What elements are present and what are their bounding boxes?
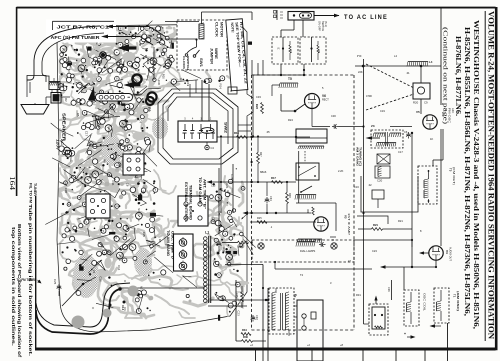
wire 253 (252, 75, 254, 137)
wire h1 r16 (217, 136, 310, 138)
sw2 oval (201, 128, 214, 134)
svg-text:.05: .05 (266, 130, 270, 134)
pcb black wedge (88, 86, 95, 101)
v4 tube (429, 246, 443, 260)
pcb outline lines (97, 260, 106, 270)
svg-text:TO AM GANG: TO AM GANG (198, 177, 202, 204)
jct arrow (113, 26, 149, 28)
gang dashed right (353, 75, 355, 330)
plus cap (407, 336, 414, 338)
speaker conn box (297, 300, 323, 361)
dial dashed box (252, 240, 354, 262)
svg-text:OSC COIL: OSC COIL (423, 293, 427, 312)
svg-text:T4: T4 (137, 181, 141, 185)
svg-text:R10: R10 (161, 74, 165, 80)
svg-text:TUNER: TUNER (33, 183, 37, 196)
plug side marks (276, 10, 278, 20)
pcb hatch C (134, 248, 152, 276)
border left (16, 7, 18, 196)
sw2 loop inner (168, 97, 228, 144)
svg-text:C: C (230, 89, 232, 93)
wire plug left down (293, 20, 295, 30)
svg-text:(FM DET): (FM DET) (452, 167, 456, 185)
v6 diag wire (295, 104, 305, 111)
svg-text:C34: C34 (269, 196, 272, 201)
pcb hatch D (152, 117, 168, 139)
ps dashed box top (252, 74, 355, 76)
svg-text:C40: C40 (255, 315, 259, 320)
wire x357 (363, 66, 365, 240)
svg-text:R18: R18 (222, 247, 226, 253)
t1 wire arrow (431, 325, 441, 327)
conn detail (311, 312, 316, 319)
cable diag (62, 284, 83, 306)
v4 wires (435, 261, 437, 268)
sw2 pins bottom (184, 133, 186, 139)
svg-text:NOTE:: NOTE: (230, 22, 235, 33)
svg-text:C12: C12 (121, 305, 125, 311)
jct label rule (53, 20, 115, 22)
svg-text:L3: L3 (102, 115, 106, 119)
sw2 box (178, 121, 217, 142)
svg-text:+: + (404, 332, 406, 336)
svg-text:TUNING (C): TUNING (C) (359, 147, 363, 166)
svg-text:C14: C14 (117, 265, 121, 271)
c box small (228, 87, 237, 94)
svg-text:C16: C16 (99, 276, 103, 282)
sw boxes (296, 163, 319, 180)
svg-text:R5: R5 (76, 113, 80, 117)
wire h300 (211, 299, 266, 301)
pcb hatch B (102, 134, 122, 166)
svg-text:R12: R12 (88, 173, 92, 179)
svg-text:R16: R16 (234, 131, 239, 135)
svg-text:TO AC LINE: TO AC LINE (344, 14, 388, 21)
svg-text:R30: R30 (243, 335, 248, 339)
bottom verticals (262, 265, 264, 361)
pcb component leads (140, 245, 151, 248)
svg-text:RECT: RECT (322, 99, 329, 102)
svg-text:R35: R35 (235, 293, 238, 298)
svg-text:V5: V5 (416, 110, 420, 114)
svg-text:MOTOR: MOTOR (220, 22, 224, 38)
z3 top coil (377, 142, 396, 144)
svg-text:top components in solid outlin: top components in solid outlines. (11, 227, 16, 346)
svg-text:SW1: SW1 (199, 58, 203, 67)
stub 7c (363, 59, 365, 66)
svg-text:R2: R2 (64, 98, 68, 102)
svg-text:C33: C33 (256, 95, 261, 99)
hole ring B (101, 53, 105, 57)
svg-text:V3: V3 (137, 208, 141, 212)
svg-text:Z3: Z3 (371, 124, 375, 128)
t5 wires (272, 84, 280, 86)
svg-text:C30: C30 (331, 114, 336, 118)
wire plug down (302, 20, 304, 37)
sw2 down wires (218, 168, 220, 234)
pcb bold arrow B (124, 82, 135, 88)
wire h222 (250, 221, 316, 223)
svg-text:164: 164 (8, 176, 16, 191)
t2 coils (271, 293, 273, 330)
b arrow up (375, 297, 377, 304)
c40 cap (252, 315, 254, 317)
svg-text:C17: C17 (84, 131, 88, 137)
svg-text:C6: C6 (404, 130, 408, 134)
stub above (447, 323, 449, 349)
svg-text:R14: R14 (219, 84, 223, 90)
sw2 loop outer (158, 89, 238, 164)
stub verts top (251, 60, 253, 75)
svg-text:WIRE: WIRE (214, 48, 218, 59)
wire to plug (218, 11, 281, 13)
sw2 loop mid (163, 93, 233, 159)
contact jumpers (280, 64, 282, 75)
svg-text:470K: 470K (366, 94, 372, 98)
step wire U (361, 176, 418, 212)
svg-text:R25: R25 (257, 217, 262, 220)
v6 tube (305, 94, 320, 109)
speaker wires (27, 76, 46, 83)
svg-text:R21: R21 (373, 223, 378, 227)
svg-text:T6: T6 (61, 83, 65, 87)
gang dashed left (251, 75, 253, 330)
wire x363 low (363, 240, 365, 324)
jct afc white bg (46, 20, 116, 43)
border left lower (35, 196, 37, 348)
wire x421 (420, 99, 422, 114)
svg-text:V6: V6 (322, 94, 326, 98)
svg-text:1ST IF AMP: 1ST IF AMP (347, 213, 351, 235)
border bottom (35, 348, 496, 351)
v4 arrow (420, 252, 429, 254)
wire right v (440, 8, 442, 66)
r11 (153, 59, 156, 70)
pcb pad rings (141, 35, 145, 39)
svg-text:.02: .02 (368, 183, 372, 187)
pcb left band texture (82, 71, 85, 81)
svg-text:V1: V1 (444, 108, 448, 112)
svg-text:R31: R31 (356, 293, 361, 297)
sw2 pins top (184, 124, 186, 131)
wire h3 (244, 212, 311, 214)
wire x391 (391, 280, 393, 300)
title underline (484, 11, 486, 341)
border right (495, 7, 498, 350)
wire v5 down (442, 129, 444, 160)
svg-text:C2B: C2B (64, 188, 68, 194)
svg-text:R3: R3 (158, 239, 162, 243)
v6 down (311, 109, 313, 129)
t1 dashed box (434, 288, 449, 323)
svg-text:Bottom view of PC board showin: Bottom view of PC board showing location… (17, 224, 22, 358)
sw dash link (304, 151, 306, 163)
svg-text:R23: R23 (255, 104, 259, 109)
fil dashed box (418, 166, 437, 204)
wire h2 r17 (208, 181, 296, 183)
contact A inner (282, 37, 284, 62)
terminal box (174, 234, 194, 271)
L4 rod coil (408, 61, 428, 63)
corner arc outer (27, 26, 100, 80)
svg-text:R6: R6 (179, 78, 183, 82)
xbox (377, 154, 390, 164)
svg-text:HID2: HID2 (132, 88, 136, 94)
b+ resistor (242, 340, 253, 343)
T6 transformer (49, 82, 60, 90)
svg-text:120V: 120V (56, 139, 60, 151)
svg-text:V1: V1 (92, 270, 96, 274)
svg-text:AM 3 GANG: AM 3 GANG (355, 147, 359, 166)
wire x221 (220, 137, 222, 214)
hole ring HID1 (132, 74, 141, 83)
svg-text:R13: R13 (119, 59, 123, 65)
left col parts (257, 153, 260, 164)
pcb pill strip (96, 94, 133, 102)
svg-text:WESTINGHOUSE Chassis V-2428-3: WESTINGHOUSE Chassis V-2428-3 and -4, us… (472, 20, 479, 329)
dial wires (274, 262, 276, 269)
sw2 below circle (206, 142, 208, 145)
pcb solder dots (126, 120, 128, 122)
gang dashed bottom (252, 329, 355, 331)
L1 coil (204, 237, 208, 241)
clock dashed box (177, 20, 227, 70)
pcb bold arrow A (118, 44, 130, 51)
c20 box (375, 166, 390, 178)
pcb hatch A (73, 254, 99, 298)
svg-text:C22: C22 (212, 217, 216, 223)
b dashed box (369, 304, 388, 335)
pcb transistor outlines (64, 147, 71, 154)
sw2 feed wires (238, 124, 252, 126)
svg-text:C8: C8 (125, 183, 129, 187)
to ac line arrow (314, 15, 339, 17)
r34 (241, 333, 251, 336)
mid wire x236 (235, 280, 237, 341)
svg-text:R9: R9 (147, 107, 151, 112)
clock motor coil (198, 24, 200, 39)
cable nodes (118, 287, 121, 290)
clock contact box A (272, 37, 298, 64)
bottom stubs (255, 350, 257, 361)
svg-text:SWITCH: SWITCH (186, 56, 190, 70)
svg-text:JUMPER: JUMPER (210, 48, 214, 65)
v3 coil (298, 238, 322, 240)
r23 v (261, 103, 264, 114)
svg-text:V4: V4 (445, 250, 449, 254)
r21 (372, 228, 383, 231)
svg-text:C9: C9 (424, 101, 428, 105)
svg-text:OSC. TRIM “D”: OSC. TRIM “D” (171, 231, 175, 261)
svg-text:R11: R11 (146, 59, 150, 65)
pcb dark bodies (138, 195, 142, 201)
contact B inner (311, 37, 313, 62)
svg-text:C25: C25 (53, 279, 57, 285)
svg-text:C15: C15 (211, 185, 216, 188)
dial resistor (238, 241, 249, 244)
svg-text:EXTERNAL ANTENNA: EXTERNAL ANTENNA (184, 182, 188, 222)
z3 arrow (366, 136, 373, 140)
relay box (296, 129, 327, 143)
svg-text:H-876LN6, H-877LN6.: H-876LN6, H-877LN6. (454, 36, 461, 116)
v5 tube (423, 115, 437, 129)
speaker magnet (51, 93, 61, 104)
svg-text:T3: T3 (449, 168, 453, 172)
pcb black bar (248, 42, 252, 45)
sw1 contact (185, 54, 188, 57)
svg-text:AFC (S) FM TUNER: AFC (S) FM TUNER (51, 35, 101, 40)
svg-text:FIL TO FM: FIL TO FM (29, 183, 33, 203)
svg-text:TO FM TUNER: TO FM TUNER (17, 278, 38, 282)
pcb copper traces (57, 24, 253, 332)
svg-text:C20: C20 (377, 179, 383, 183)
pcb IF can Z1 (86, 194, 110, 218)
svg-text:CLOCK: CLOCK (182, 56, 186, 70)
svg-text:FM OSC: FM OSC (448, 108, 452, 123)
svg-text:VOLUME R-24, MOST-OFTEN-NEEDED: VOLUME R-24, MOST-OFTEN-NEEDED 1964 RADI… (486, 11, 495, 339)
svg-text:R28: R28 (288, 193, 291, 198)
svg-text:C21: C21 (225, 183, 229, 189)
z4 parts (372, 190, 384, 199)
cable shield (72, 316, 85, 329)
svg-text:22K: 22K (358, 70, 363, 74)
dashed diag (366, 64, 414, 88)
svg-text:R34: R34 (242, 328, 247, 332)
pcb can T4 (123, 154, 144, 175)
svg-text:AC: AC (60, 139, 64, 145)
svg-text:T2: T2 (293, 294, 297, 298)
r33 (241, 292, 244, 302)
svg-text:V3: V3 (344, 215, 348, 219)
svg-text:C4: C4 (139, 119, 143, 123)
z3 dashed box (371, 130, 403, 148)
wire h306 (208, 305, 247, 307)
svg-text:1K: 1K (430, 137, 433, 141)
t6 wires (51, 90, 53, 93)
sw2 top feeds (201, 80, 203, 121)
corner arc inner (42, 33, 104, 81)
t2 dashed box (269, 288, 294, 334)
svg-text:R27: R27 (259, 152, 262, 157)
svg-text:C19: C19 (186, 81, 190, 87)
svg-text:R4: R4 (114, 155, 118, 159)
svg-text:C26: C26 (387, 287, 390, 292)
svg-text:R26: R26 (238, 245, 243, 249)
svg-text:C30: C30 (157, 80, 161, 86)
cable curve inner (36, 283, 130, 327)
svg-text:R21: R21 (398, 219, 403, 223)
dial coil (297, 241, 315, 243)
svg-text:C16: C16 (354, 185, 359, 189)
svg-text:R24: R24 (288, 118, 293, 122)
note box (226, 19, 248, 91)
speaker cone (21, 105, 49, 115)
svg-text:2.2K: 2.2K (338, 169, 344, 173)
cable curve outer (36, 289, 120, 334)
clock contact box B (300, 37, 326, 64)
svg-text:SPEAKER: SPEAKER (62, 113, 67, 142)
svg-text:ANT. TRIM “B”: ANT. TRIM “B” (203, 179, 207, 209)
v6 bottom wire (311, 109, 313, 127)
extra junction dots (280, 74, 282, 76)
note text (230, 22, 248, 85)
osc coil dashed box (404, 290, 419, 326)
svg-text:6BA6: 6BA6 (260, 170, 267, 174)
svg-text:C31: C31 (111, 180, 115, 186)
svg-text:AFC: AFC (451, 108, 455, 113)
svg-text:R17: R17 (271, 176, 276, 180)
wire x404 (411, 133, 413, 229)
svg-text:AUDIO OUT: AUDIO OUT (449, 247, 452, 261)
svg-text:T1: T1 (453, 294, 457, 298)
AC interlock plug (288, 12, 314, 21)
svg-text:T5: T5 (288, 77, 292, 81)
svg-text:SW2: SW2 (224, 122, 229, 134)
svg-text:C23: C23 (372, 249, 377, 253)
svg-text:H-852N6, H-855LN6, H-856LN6, H: H-852N6, H-855LN6, H-856LN6, H-871N6, H-… (463, 27, 470, 316)
svg-text:L2: L2 (156, 38, 160, 42)
pcb top band texture (152, 39, 158, 47)
step wire 3 (354, 240, 412, 247)
svg-text:C25: C25 (142, 232, 146, 238)
left col parts2 (286, 193, 289, 204)
svg-text:CLOCK: CLOCK (215, 22, 219, 38)
conv box (413, 83, 430, 99)
svg-text:C23: C23 (236, 311, 240, 317)
wire x441 low (440, 129, 442, 246)
svg-text:TERMINAL BOARD: TERMINAL BOARD (189, 185, 193, 221)
svg-text:TO AM GANG: TO AM GANG (166, 230, 170, 256)
r9 ring (147, 92, 156, 101)
svg-text:C4: C4 (211, 146, 215, 150)
svg-text:DIAL LAMPS: DIAL LAMPS (300, 249, 315, 253)
svg-text:L4: L4 (429, 60, 433, 64)
pcb ring centers (143, 36, 144, 37)
pcb IF can Z2 (178, 196, 208, 226)
svg-text:L1: L1 (205, 231, 209, 235)
border top (17, 7, 496, 9)
t5 coil (280, 82, 298, 84)
svg-text:R20: R20 (413, 101, 419, 105)
svg-text:C19: C19 (380, 109, 385, 113)
afc arrow (108, 36, 140, 38)
b inner box (372, 307, 385, 329)
terminal screws (179, 239, 187, 247)
step wire 2 (357, 216, 388, 224)
svg-text:R8: R8 (102, 159, 106, 163)
hole ring A (146, 97, 154, 105)
svg-text:(AM OSC): (AM OSC) (456, 291, 460, 311)
svg-text:(2): (2) (277, 48, 280, 50)
wire top right (355, 65, 441, 67)
clock top wires (201, 12, 203, 24)
svg-text:.01: .01 (406, 71, 410, 75)
svg-text:C17: C17 (398, 150, 403, 154)
svg-text:(S-1): (S-1) (324, 21, 328, 27)
v3 tube (314, 217, 328, 231)
